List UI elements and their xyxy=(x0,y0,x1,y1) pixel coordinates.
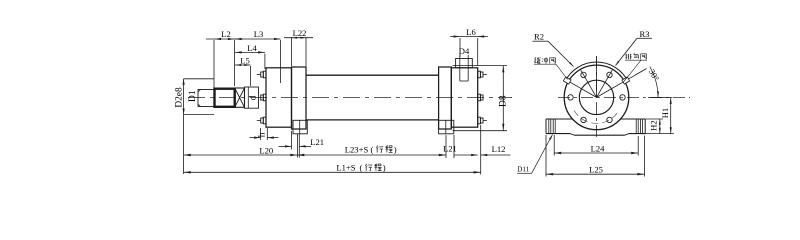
end view horizontal centerline xyxy=(558,96,690,98)
end view vertical centerline xyxy=(596,56,598,141)
gland bottom tab xyxy=(263,117,266,124)
dimension h of gland tab xyxy=(260,128,262,140)
dimension H2 xyxy=(645,118,663,120)
label air vent text xyxy=(625,54,627,60)
svg-text:L25: L25 xyxy=(589,164,603,174)
rod thread section xyxy=(198,90,215,107)
svg-text:L12: L12 xyxy=(492,144,506,154)
wire horizontal centerline of cylinder side view xyxy=(188,97,512,99)
dimension L12 xyxy=(454,154,478,156)
gland mid tab xyxy=(263,94,266,101)
label cushion valve text xyxy=(535,57,536,59)
svg-text:(: ( xyxy=(371,144,374,154)
dimension L24 xyxy=(553,135,555,156)
svg-text:L3: L3 xyxy=(254,29,264,39)
svg-text:D8: D8 xyxy=(499,95,509,107)
svg-text:): ) xyxy=(383,163,386,173)
dimension L5 xyxy=(250,66,252,86)
svg-text:D4: D4 xyxy=(459,46,470,56)
rear top tab xyxy=(478,71,481,78)
dimension L3 xyxy=(280,40,282,83)
dimension chain line L20 L23+S xyxy=(184,154,446,156)
dimension L2 xyxy=(213,40,215,88)
svg-text:L24: L24 xyxy=(591,143,606,153)
dimension L22 xyxy=(291,37,293,66)
mounting base outline xyxy=(546,118,573,120)
air vent boss upper-right xyxy=(622,77,630,84)
right foot bolt slot xyxy=(635,119,637,134)
svg-text:L4: L4 xyxy=(247,43,257,53)
front cushion boss xyxy=(293,120,307,134)
dimension L21 left flange xyxy=(291,131,293,150)
dimension D8 diameter line xyxy=(453,65,508,67)
base bottom extension line xyxy=(645,133,674,135)
dimension L1+S overall xyxy=(184,171,481,173)
gland block left head xyxy=(266,68,292,127)
rear bottom tab xyxy=(478,117,481,124)
rear cushion boss xyxy=(439,120,454,134)
dimension L21 right flange xyxy=(445,135,447,158)
bore inner circle xyxy=(579,80,613,114)
svg-text:L6: L6 xyxy=(466,27,476,37)
dimension H1 xyxy=(648,97,672,99)
gland top tab xyxy=(263,71,266,78)
svg-text:D11: D11 xyxy=(517,166,529,174)
svg-text:L20: L20 xyxy=(259,145,273,155)
left foot bolt slot xyxy=(548,119,550,134)
cushion valve boss upper-left xyxy=(563,77,571,84)
piston rod bold section xyxy=(215,89,235,107)
flange outer circle xyxy=(564,65,629,130)
radial spokes xyxy=(567,80,597,97)
bolt holes xyxy=(620,95,625,100)
svg-text:): ) xyxy=(394,144,397,154)
svg-text:H2: H2 xyxy=(649,120,659,131)
rear mounting flange xyxy=(439,67,452,129)
svg-text:L23+S: L23+S xyxy=(345,144,369,154)
svg-text:L21: L21 xyxy=(310,137,324,147)
svg-text:R3: R3 xyxy=(639,29,649,39)
rear mid tab xyxy=(478,94,481,101)
front mounting flange xyxy=(292,67,307,129)
node D2e8 rod diameter dimension bracket xyxy=(183,79,185,174)
cylinder tube xyxy=(306,74,439,76)
dimension L25 xyxy=(545,135,547,177)
svg-text:L2: L2 xyxy=(221,29,231,39)
svg-text:D2e8: D2e8 xyxy=(175,87,185,108)
rod wrench-flat section d xyxy=(245,87,259,108)
oil port boss on rear head xyxy=(456,59,473,68)
dimension L6 xyxy=(459,38,461,57)
angle dimension 30deg xyxy=(650,67,658,98)
svg-text:(: ( xyxy=(360,163,363,173)
svg-text:L21: L21 xyxy=(443,145,457,154)
svg-text:L5: L5 xyxy=(240,56,250,66)
svg-text:L1+S: L1+S xyxy=(336,163,355,173)
svg-text:D1: D1 xyxy=(188,90,198,102)
dimension L4 xyxy=(264,54,266,70)
head outer arc R3 xyxy=(565,62,628,81)
svg-text:d: d xyxy=(247,95,257,100)
bolt circle centerline arc xyxy=(574,110,619,123)
rear head block xyxy=(451,68,477,127)
svg-text:H1: H1 xyxy=(660,108,670,119)
svg-text:R2: R2 xyxy=(534,32,544,42)
svg-text:h: h xyxy=(257,132,267,137)
crosshatched nut block xyxy=(235,88,245,107)
svg-text:L22: L22 xyxy=(293,28,307,38)
